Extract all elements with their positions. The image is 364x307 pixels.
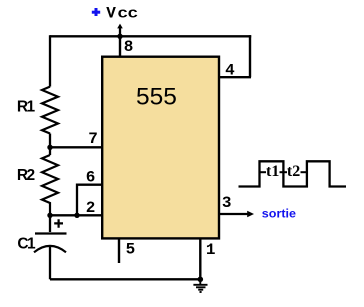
Vcc arrow stem bbox=[119, 28, 121, 37]
waveform t2 right tick bbox=[301, 171, 307, 173]
wire: pin 7 stub bbox=[50, 146, 102, 148]
ground symbol bbox=[193, 279, 207, 292]
Vcc arrowhead bbox=[117, 24, 123, 29]
svg-text:CC: CC bbox=[118, 7, 138, 21]
svg-text:V: V bbox=[106, 4, 116, 22]
capacitor C1 top plate bbox=[35, 232, 67, 234]
wire: pin 8 stub bbox=[119, 36, 121, 56]
svg-text:555: 555 bbox=[136, 84, 177, 111]
wire: C1 top lead bbox=[49, 215, 51, 232]
svg-text:R1: R1 bbox=[17, 98, 36, 115]
node: ground junction dot bbox=[198, 277, 204, 283]
wire: Vcc top rail bbox=[50, 35, 251, 37]
waveform square wave bbox=[239, 161, 347, 186]
resistor R2 bbox=[42, 155, 58, 215]
svg-text:R2: R2 bbox=[17, 167, 35, 184]
svg-text:6: 6 bbox=[86, 169, 96, 187]
wire: C1 bottom lead bbox=[49, 247, 51, 280]
wire: pin 1 stub bbox=[199, 239, 201, 279]
svg-text:8: 8 bbox=[124, 38, 134, 56]
svg-text:t2: t2 bbox=[287, 163, 300, 180]
resistor R1 bbox=[42, 87, 58, 134]
wire: pin 6 branch bbox=[77, 185, 102, 216]
node: Vcc junction dot bbox=[117, 34, 122, 39]
pin 3 arrowhead bbox=[247, 211, 254, 218]
svg-text:4: 4 bbox=[225, 62, 235, 80]
IC body 555 bbox=[102, 57, 219, 239]
svg-text:7: 7 bbox=[88, 130, 98, 148]
node: pin2 junction dot left bbox=[47, 213, 52, 218]
wire: pin 4 stub bbox=[219, 76, 251, 78]
wire: between R1 and R2 bbox=[49, 134, 51, 156]
svg-text:t1: t1 bbox=[266, 163, 279, 180]
svg-text:2: 2 bbox=[86, 199, 96, 217]
wire: left branch down to R1 bbox=[49, 35, 51, 86]
svg-text:1: 1 bbox=[206, 241, 216, 259]
capacitor C1 plus sign bbox=[54, 219, 63, 228]
wire: pin 4 branch vertical bbox=[249, 35, 251, 77]
wire: pin 2 stub bbox=[50, 214, 102, 216]
node: pin7 junction dot bbox=[47, 145, 52, 150]
svg-text:sortie: sortie bbox=[262, 207, 297, 221]
waveform t1-t2 middle tick bbox=[280, 171, 288, 173]
node: pin6 branch dot bbox=[74, 213, 79, 218]
wire: bottom ground rail bbox=[50, 278, 200, 280]
svg-text:3: 3 bbox=[222, 194, 232, 212]
svg-text:C1: C1 bbox=[17, 236, 36, 253]
wire: pin 5 stub bbox=[118, 239, 120, 263]
waveform t1 left tick bbox=[260, 171, 267, 173]
capacitor C1 curved plate bbox=[34, 246, 66, 252]
wire: pin 3 output with arrow bbox=[219, 213, 248, 215]
svg-text:5: 5 bbox=[126, 241, 136, 259]
+ Vcc label plus sign bbox=[92, 8, 100, 16]
